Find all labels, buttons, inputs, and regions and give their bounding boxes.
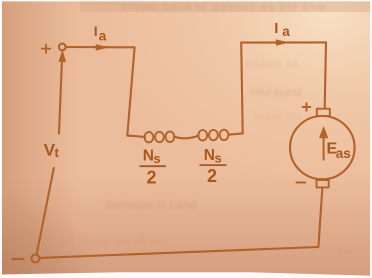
wire right-middle vertical up <box>241 43 243 134</box>
minus sign at armature bottom <box>297 182 306 184</box>
inductor Ns/2 second half (series field coil 2) <box>198 130 228 141</box>
bleed-through print texture <box>60 1 355 257</box>
wire top-left horizontal <box>66 46 135 48</box>
wire stub to first coil <box>127 136 145 137</box>
svg-text:I: I <box>274 20 278 37</box>
brush (top) of armature <box>317 109 330 116</box>
svg-text:2: 2 <box>147 168 157 188</box>
svg-text:t: t <box>55 145 60 160</box>
svg-text:decrease in I and: decrease in I and <box>104 198 196 212</box>
svg-text:blsit bund: blsit bund <box>250 85 301 99</box>
svg-text:a: a <box>282 24 290 39</box>
svg-text:beqsol bss: beqsol bss <box>253 111 301 122</box>
node + terminal (top-left, open circle) <box>59 44 66 51</box>
wire left vertical upper segment with up arrow <box>59 51 65 134</box>
svg-text:eruism sd: eruism sd <box>246 57 298 71</box>
svg-text:a: a <box>99 28 107 43</box>
svg-text:as: as <box>336 146 351 161</box>
wire left-middle vertical down to field <box>127 47 134 135</box>
svg-text:sdt bsil list taq sift bas: sdt bsil list taq sift bas <box>60 234 167 246</box>
label Ns/2 (first coil) <box>140 147 167 187</box>
wire top-right horizontal <box>241 41 326 43</box>
current arrow Ia (right) <box>276 40 287 45</box>
wire right vertical down to armature <box>325 42 326 108</box>
internal emf arrow (points up) <box>320 127 328 160</box>
brush (bottom) of armature <box>317 180 329 187</box>
wire bottom-right vertical <box>318 187 322 247</box>
node - terminal (bottom-left, open circle) <box>31 254 39 262</box>
minus sign at Vt bottom terminal <box>12 258 23 260</box>
armature circle Eas (machine) <box>290 116 355 179</box>
inductor Ns/2 first half (series field coil 1) <box>145 132 175 143</box>
svg-text:srsvm bsrit lo aasoxs as bsl b: srsvm bsrit lo aasoxs as bsl bsw <box>122 1 327 13</box>
svg-text:I: I <box>94 23 98 39</box>
plus sign at armature top <box>303 103 311 111</box>
wire stub right of coils <box>228 133 243 134</box>
wire left vertical lower segment <box>37 168 54 255</box>
plus sign at Vt top terminal <box>42 45 50 53</box>
svg-text:N: N <box>204 147 215 164</box>
svg-text:906: 906 <box>338 246 355 257</box>
label Eas <box>327 141 351 162</box>
circuit ink <box>12 40 354 262</box>
svg-text:s: s <box>153 151 160 166</box>
svg-text:s: s <box>215 150 222 165</box>
wire between coils <box>174 136 199 139</box>
svg-text:N: N <box>143 147 154 164</box>
label Ns/2 (second coil) <box>200 147 227 186</box>
wire bottom horizontal <box>40 247 319 258</box>
current arrow Ia (left) <box>96 45 107 50</box>
svg-text:2: 2 <box>207 166 217 186</box>
